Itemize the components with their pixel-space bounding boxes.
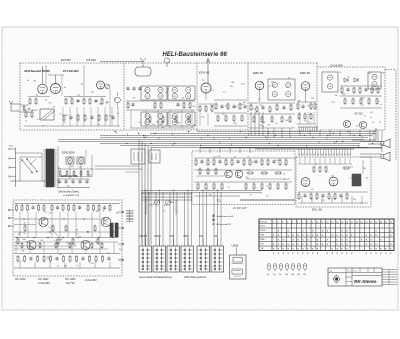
tuner vertical wires xyxy=(46,65,110,126)
label Gleichrichter xyxy=(58,191,79,198)
svg-text:220: 220 xyxy=(234,107,237,109)
svg-text:500: 500 xyxy=(335,95,338,97)
svg-text:220: 220 xyxy=(230,86,233,88)
output transformer TR3 xyxy=(352,174,361,186)
svg-text:500: 500 xyxy=(74,176,77,178)
svg-text:8n: 8n xyxy=(64,87,66,89)
ratio detector coil can 2 xyxy=(368,72,381,89)
svg-text:1k: 1k xyxy=(372,122,374,124)
svg-text:47k: 47k xyxy=(322,200,325,202)
EBF89 stage RC network xyxy=(249,103,295,128)
svg-text:0,5: 0,5 xyxy=(249,194,252,196)
svg-text:220: 220 xyxy=(241,84,244,86)
power transformer TR1 xyxy=(44,149,57,187)
svg-text:100: 100 xyxy=(66,243,69,245)
label OC1044 xyxy=(15,277,26,281)
EBF89-2 RC network xyxy=(297,102,316,124)
title block ruled lines xyxy=(382,270,398,285)
svg-text:500: 500 xyxy=(177,123,180,125)
mains voltage selector taps xyxy=(9,146,15,188)
svg-text:Tag: Tag xyxy=(329,271,332,273)
electrolytic capacitor group xyxy=(267,264,307,277)
svg-text:2k2: 2k2 xyxy=(165,92,168,94)
trimmer capacitor C2 xyxy=(105,84,110,89)
svg-text:4,7: 4,7 xyxy=(119,259,122,261)
loudspeaker LS2 xyxy=(381,152,390,161)
svg-text:4×GA 682: 4×GA 682 xyxy=(85,278,97,282)
svg-text:OA 610: OA 610 xyxy=(86,58,96,62)
svg-text:2× OC 117: 2× OC 117 xyxy=(232,206,247,210)
svg-text:47k: 47k xyxy=(81,242,84,244)
UKW auxiliary switch xyxy=(230,243,247,279)
svg-text:0,5: 0,5 xyxy=(370,112,373,114)
svg-text:3k3: 3k3 xyxy=(350,167,353,169)
svg-text:1k: 1k xyxy=(51,226,53,228)
svg-text:3k3: 3k3 xyxy=(193,106,196,108)
svg-text:1k: 1k xyxy=(202,80,204,82)
IF tube V5 EBF89 xyxy=(301,82,310,102)
svg-text:RK-Stereo: RK-Stereo xyxy=(354,279,377,284)
label OA 610 xyxy=(86,58,96,62)
svg-text:150: 150 xyxy=(59,182,62,184)
svg-text:82: 82 xyxy=(86,232,88,234)
output transformer TR2 xyxy=(110,223,118,237)
hum adjust potentiometer P1 xyxy=(154,200,159,205)
label ECH81 xyxy=(199,70,210,74)
tuner diode circle xyxy=(115,92,121,108)
svg-text:Lötbahnanschluß: Lötbahnanschluß xyxy=(217,215,234,218)
amplifier input terminals xyxy=(8,209,14,227)
svg-text:GA 791: GA 791 xyxy=(66,281,75,285)
svg-text:5n: 5n xyxy=(219,201,221,203)
svg-text:3k3: 3k3 xyxy=(209,195,212,197)
svg-text:70: 70 xyxy=(138,89,140,91)
svg-text:5M: 5M xyxy=(285,274,288,276)
bus junction dots and ties xyxy=(114,131,373,148)
svg-text:1k: 1k xyxy=(228,187,230,189)
svg-text:10k: 10k xyxy=(17,234,20,236)
svg-text:5n: 5n xyxy=(79,236,81,238)
AF output stage dashed enclosure xyxy=(296,157,371,207)
svg-text:500: 500 xyxy=(90,263,93,265)
amplifier lower mid components xyxy=(14,218,118,253)
svg-text:Röhrenstift 6/9: Röhrenstift 6/9 xyxy=(217,223,232,226)
svg-text:5n: 5n xyxy=(26,241,28,243)
filter capacitor bank xyxy=(57,179,90,188)
ratio detector dashed enclosure 2xOA685 xyxy=(317,67,385,130)
legend chassis symbol xyxy=(212,219,214,221)
mains switch S1 xyxy=(10,153,45,181)
svg-text:0,1: 0,1 xyxy=(58,169,61,171)
potentiometer P2 xyxy=(165,200,170,205)
ECL86 stage RC network xyxy=(298,158,368,204)
svg-text:2×OA 685: 2×OA 685 xyxy=(329,64,343,68)
svg-text:1k: 1k xyxy=(272,86,274,88)
wiring bundle to switch bank xyxy=(95,140,151,246)
decoder transistor Q7 OC117 xyxy=(225,170,233,178)
svg-text:82: 82 xyxy=(311,189,313,191)
svg-text:Netz: Netz xyxy=(261,225,266,228)
svg-text:500: 500 xyxy=(247,169,250,171)
svg-text:0,1: 0,1 xyxy=(37,119,40,121)
svg-text:500: 500 xyxy=(109,116,112,118)
label ECC85 xyxy=(61,58,71,62)
svg-text:OC 1064: OC 1064 xyxy=(38,277,49,281)
svg-text:0,1: 0,1 xyxy=(252,162,255,164)
caption Gesamtreale Schaltdarstellung xyxy=(139,276,206,279)
svg-text:100: 100 xyxy=(342,94,345,96)
svg-text:4,7: 4,7 xyxy=(180,197,183,199)
svg-text:2k2: 2k2 xyxy=(271,82,274,84)
svg-text:1M: 1M xyxy=(77,95,80,97)
schematic title HELI-Bausteinserie 66 xyxy=(163,52,228,58)
svg-text:100: 100 xyxy=(259,105,262,107)
detector RC network xyxy=(340,86,382,108)
bus to decoder verticals xyxy=(200,148,250,153)
pushbutton switch MW xyxy=(181,246,194,272)
svg-text:0,5: 0,5 xyxy=(106,221,109,223)
antenna input terminals xyxy=(9,101,20,111)
svg-text:1k: 1k xyxy=(53,107,55,109)
svg-text:1k: 1k xyxy=(234,156,236,158)
svg-text:70: 70 xyxy=(79,207,81,209)
svg-text:1k: 1k xyxy=(211,90,213,92)
svg-text:5n: 5n xyxy=(239,178,241,180)
svg-text:UKW-Taste gedrückt: UKW-Taste gedrückt xyxy=(184,276,206,279)
svg-text:0,1: 0,1 xyxy=(350,178,353,180)
driver transistor Q4 xyxy=(101,217,111,227)
svg-text:10k: 10k xyxy=(297,274,300,276)
ECH81 stage RC network xyxy=(198,100,247,126)
svg-text:3k3: 3k3 xyxy=(164,205,167,207)
svg-text:Gleichrichter (Selen): Gleichrichter (Selen) xyxy=(58,191,79,194)
svg-text:EBF 89: EBF 89 xyxy=(253,71,263,75)
svg-text:10k: 10k xyxy=(88,175,91,177)
title block frame xyxy=(328,268,382,286)
svg-text:100: 100 xyxy=(201,116,204,118)
svg-text:5n: 5n xyxy=(76,265,78,267)
svg-text:1M: 1M xyxy=(102,211,105,213)
svg-text:220: 220 xyxy=(368,73,371,75)
svg-text:500: 500 xyxy=(67,185,70,187)
svg-text:UKW: UKW xyxy=(232,243,239,247)
connector socket J2 xyxy=(149,150,160,163)
solder strip comb 2 xyxy=(298,127,318,132)
svg-text:5n: 5n xyxy=(164,210,166,212)
svg-text:3k3: 3k3 xyxy=(171,202,174,204)
svg-text:82: 82 xyxy=(81,84,83,86)
svg-text:HELI-Bausteinserie 66: HELI-Bausteinserie 66 xyxy=(163,52,228,58)
svg-text:TA: TA xyxy=(214,234,218,238)
svg-text:56k: 56k xyxy=(79,166,82,168)
svg-text:150: 150 xyxy=(292,158,295,160)
IF amplifier tube V2 (rounded) xyxy=(100,58,151,76)
svg-text:1M: 1M xyxy=(91,92,94,94)
label UKW-Baustein 95/366 xyxy=(24,70,79,73)
svg-text:47k: 47k xyxy=(49,212,52,214)
antenna matching parts xyxy=(20,105,30,112)
terminal strip ticks xyxy=(126,210,134,223)
svg-text:0,1: 0,1 xyxy=(360,203,363,205)
IF to bus vertical wires xyxy=(251,112,382,142)
svg-text:10k: 10k xyxy=(156,122,159,124)
svg-text:UKW-Baustein 95/366: UKW-Baustein 95/366 xyxy=(24,70,50,73)
svg-text:4,7: 4,7 xyxy=(266,196,269,198)
manufacturer diamond logo xyxy=(333,275,340,283)
svg-text:100: 100 xyxy=(217,156,220,158)
svg-text:2k2: 2k2 xyxy=(66,115,69,117)
svg-text:0,1: 0,1 xyxy=(113,231,116,233)
main wiring bus xyxy=(58,132,381,148)
svg-text:1k: 1k xyxy=(74,245,76,247)
switch bank risers xyxy=(141,190,262,246)
svg-text:220V: 220V xyxy=(9,146,14,148)
amplifier output arrows xyxy=(118,211,124,261)
label 2xOA 685 xyxy=(329,64,343,68)
svg-text:1k: 1k xyxy=(283,174,285,176)
svg-text:4,7: 4,7 xyxy=(288,77,291,79)
svg-text:2×GA 685: 2×GA 685 xyxy=(37,281,50,285)
svg-text:0,1: 0,1 xyxy=(261,119,264,121)
title RK-Stereo xyxy=(354,279,377,284)
stereo decoder dashed enclosure xyxy=(192,151,295,205)
right margin dashed enclosure xyxy=(385,70,396,161)
svg-text:500: 500 xyxy=(262,122,265,124)
svg-text:OC 1044: OC 1044 xyxy=(15,277,26,281)
svg-text:500: 500 xyxy=(64,266,67,268)
svg-text:1n: 1n xyxy=(32,110,34,112)
pushbutton switch KW xyxy=(167,246,180,272)
pushbutton switch TA xyxy=(211,246,224,272)
triode V1b ECC85 xyxy=(48,75,64,94)
svg-text:8n: 8n xyxy=(262,126,264,128)
IF band filter FL1 xyxy=(141,86,167,100)
output terminal box corner xyxy=(352,128,376,140)
svg-text:47k: 47k xyxy=(144,91,147,93)
svg-text:1M: 1M xyxy=(303,274,306,276)
svg-text:5n: 5n xyxy=(247,157,249,159)
svg-text:1n: 1n xyxy=(64,122,66,124)
svg-text:100: 100 xyxy=(331,102,334,104)
svg-text:56k: 56k xyxy=(21,250,24,252)
svg-text:220: 220 xyxy=(213,157,216,159)
svg-text:100: 100 xyxy=(71,166,74,168)
svg-text:4,7: 4,7 xyxy=(107,252,110,254)
svg-text:1M: 1M xyxy=(363,168,366,170)
svg-text:ECH 81: ECH 81 xyxy=(199,70,210,74)
svg-text:5n: 5n xyxy=(25,120,27,122)
svg-text:2k2: 2k2 xyxy=(31,247,34,249)
output tube V9 ECL86 xyxy=(329,177,338,186)
label OC1064 GA791 xyxy=(65,277,76,285)
output transistor Q6 xyxy=(81,240,90,249)
oscillator tube V1c xyxy=(97,81,105,89)
svg-text:500: 500 xyxy=(382,73,385,75)
rectifier bridge GR2 xyxy=(77,157,85,164)
detector diode D1 xyxy=(344,78,348,82)
UKW tuner module dashed enclosure xyxy=(20,63,248,131)
svg-text:UKW: UKW xyxy=(154,234,161,238)
AM antenna input arrow xyxy=(206,59,210,84)
pushbutton switch NETZ xyxy=(139,246,152,272)
svg-text:70: 70 xyxy=(36,95,38,97)
svg-text:70: 70 xyxy=(356,125,358,127)
decoder mid components xyxy=(196,168,290,180)
tuner lower parts row xyxy=(24,107,120,126)
svg-text:OC 1064: OC 1064 xyxy=(65,277,76,281)
IF band filter FL3 xyxy=(141,112,167,126)
svg-text:0,1: 0,1 xyxy=(373,90,376,92)
svg-text:10k: 10k xyxy=(366,178,369,180)
svg-text:100: 100 xyxy=(285,120,288,122)
svg-text:3k3: 3k3 xyxy=(181,97,184,99)
IF strip dashed enclosure xyxy=(248,63,317,131)
svg-text:70: 70 xyxy=(309,114,311,116)
svg-text:1k: 1k xyxy=(370,117,372,119)
svg-text:82: 82 xyxy=(95,242,97,244)
svg-text:47k: 47k xyxy=(276,160,279,162)
svg-text:1k: 1k xyxy=(24,223,26,225)
svg-text:5n: 5n xyxy=(283,179,285,181)
label ECL 86 xyxy=(312,208,322,212)
svg-text:47k: 47k xyxy=(268,125,271,127)
svg-text:10k: 10k xyxy=(291,274,294,276)
svg-text:1n: 1n xyxy=(364,116,366,118)
svg-text:1n: 1n xyxy=(377,101,379,103)
triode V1a ECC85 xyxy=(38,66,48,94)
pushbutton switch UKW xyxy=(153,246,166,272)
svg-text:1k: 1k xyxy=(60,113,62,115)
svg-text:an A (B250 C75): an A (B250 C75) xyxy=(63,194,79,197)
label EBF 89 second xyxy=(300,71,310,75)
IF tube V4 EBF89 xyxy=(255,81,264,102)
output transistor Q5 xyxy=(27,240,36,249)
svg-text:8n: 8n xyxy=(162,127,164,129)
svg-text:4,7: 4,7 xyxy=(42,126,45,128)
AF transistor Q1 OC810 xyxy=(343,120,350,127)
svg-text:ECL 86: ECL 86 xyxy=(312,208,322,212)
IF band filter FL5 xyxy=(268,79,295,100)
svg-text:220: 220 xyxy=(59,254,62,256)
svg-text:Kontakt: Kontakt xyxy=(260,221,268,224)
svg-text:1M: 1M xyxy=(76,229,79,231)
svg-text:0,5: 0,5 xyxy=(167,88,170,90)
svg-text:5n: 5n xyxy=(348,76,350,78)
loudspeaker LS1 xyxy=(381,139,390,148)
switch contact table xyxy=(259,219,394,255)
svg-text:1n: 1n xyxy=(207,190,209,192)
label EBF89 xyxy=(253,71,263,75)
svg-text:1n: 1n xyxy=(353,176,355,178)
svg-text:ECC85: ECC85 xyxy=(61,58,71,62)
svg-text:2k2: 2k2 xyxy=(307,106,310,108)
label 2x OC117 xyxy=(232,206,247,210)
svg-text:EBF 89: EBF 89 xyxy=(300,71,310,75)
middle tuner RC row xyxy=(126,87,195,129)
power supply extra parts xyxy=(58,150,92,177)
rectifier bridge GR1 xyxy=(66,157,74,164)
svg-text:Ers.d.: Ers.d. xyxy=(353,271,358,273)
label OC1064 2xGA685 xyxy=(37,277,50,285)
svg-text:47k: 47k xyxy=(149,205,152,207)
svg-text:150: 150 xyxy=(28,112,31,114)
connector socket J1 xyxy=(131,149,145,164)
svg-text:1n: 1n xyxy=(266,186,268,188)
tuner RC network row xyxy=(28,97,106,106)
label EZ80 EZ81 xyxy=(62,151,76,155)
output tube V8 ECL86 xyxy=(301,178,310,187)
svg-text:0,5: 0,5 xyxy=(139,122,142,124)
decoder transistor Q8 OC117 xyxy=(235,170,243,178)
amplifier top RC row xyxy=(14,204,120,212)
svg-text:NETZ: NETZ xyxy=(140,234,148,238)
ferrite antenna symbol xyxy=(164,58,169,67)
svg-text:87,5-100 MHz: 87,5-100 MHz xyxy=(63,70,79,73)
svg-text:70: 70 xyxy=(315,164,317,166)
svg-text:0,1: 0,1 xyxy=(114,235,117,237)
AF transistor Q2 OC810 xyxy=(359,121,366,128)
svg-text:220: 220 xyxy=(331,175,334,177)
svg-text:0,5: 0,5 xyxy=(223,91,226,93)
decoder RC network xyxy=(194,158,295,200)
svg-text:1k: 1k xyxy=(339,72,341,74)
svg-text:5n: 5n xyxy=(380,104,382,106)
svg-text:70: 70 xyxy=(171,118,173,120)
svg-text:500: 500 xyxy=(361,97,364,99)
component value annotations xyxy=(17,72,384,268)
svg-text:1M: 1M xyxy=(47,257,50,259)
svg-text:1M: 1M xyxy=(298,100,301,102)
svg-text:4,7: 4,7 xyxy=(258,99,261,101)
svg-text:500: 500 xyxy=(210,105,213,107)
ratio detector coil can xyxy=(322,72,338,92)
svg-text:47k: 47k xyxy=(40,240,43,242)
label EZ81 (EZ80) xyxy=(61,174,77,178)
svg-text:10k: 10k xyxy=(132,98,135,100)
tuning capacitor C1 xyxy=(40,109,55,120)
label OC810 xyxy=(354,113,363,116)
detector diode D2 xyxy=(354,78,358,82)
svg-text:Ers.f.: Ers.f. xyxy=(348,271,353,273)
svg-text:56k: 56k xyxy=(231,82,234,84)
svg-text:0,1: 0,1 xyxy=(334,199,337,201)
svg-text:4,7: 4,7 xyxy=(20,261,23,263)
amplifier bottom RC row xyxy=(14,254,120,269)
svg-text:4,7: 4,7 xyxy=(178,112,181,114)
svg-text:2k2: 2k2 xyxy=(97,124,100,126)
driver transistor Q3 xyxy=(39,217,48,226)
svg-text:1M: 1M xyxy=(96,211,99,213)
svg-text:56k: 56k xyxy=(59,239,62,241)
svg-text:Gesamtreale Schaltdarstellung: Gesamtreale Schaltdarstellung xyxy=(139,276,172,279)
svg-text:EZ80 EZ81: EZ80 EZ81 xyxy=(62,151,76,155)
svg-text:0,1: 0,1 xyxy=(54,240,57,242)
pushbutton switch labels xyxy=(140,234,218,246)
svg-text:4,7: 4,7 xyxy=(269,85,272,87)
svg-text:2k2: 2k2 xyxy=(241,104,244,106)
legend tube pin symbol xyxy=(213,223,232,226)
svg-text:5n: 5n xyxy=(69,97,71,99)
solder strip terminal comb xyxy=(255,149,354,155)
svg-text:10k: 10k xyxy=(311,97,314,99)
svg-text:70: 70 xyxy=(117,113,119,115)
speaker feed wires xyxy=(200,142,382,158)
IF band filter FL4 xyxy=(168,112,195,126)
heater wiring lines xyxy=(141,194,192,215)
svg-text:4,7: 4,7 xyxy=(286,87,289,89)
IF band filter FL2 xyxy=(168,86,195,100)
mixer tube V3 ECH81 xyxy=(201,83,211,100)
